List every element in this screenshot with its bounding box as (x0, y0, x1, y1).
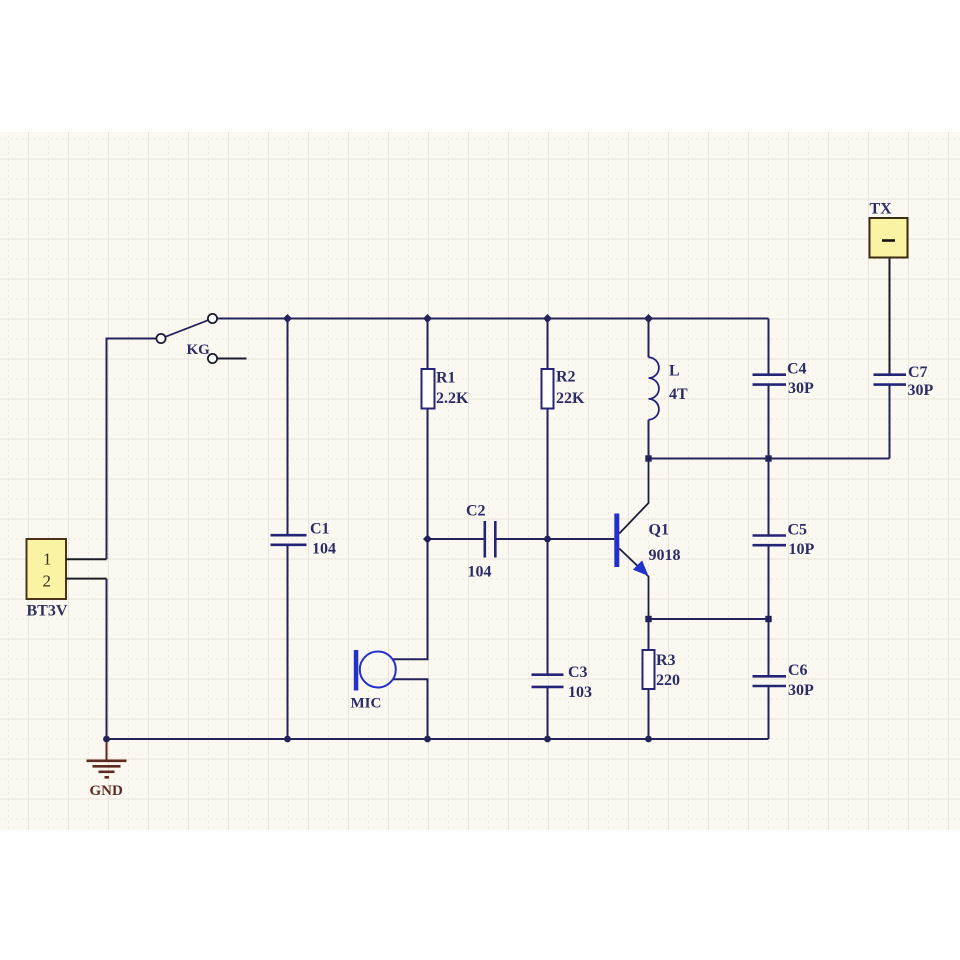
svg-text:1: 1 (43, 550, 52, 569)
wire: base node to C3 (547, 539, 549, 674)
switch KG lower throw stub wire (218, 358, 247, 360)
capacitor C2 plates (485, 521, 496, 558)
capacitor C1 plates (271, 535, 307, 545)
inductor L arcs (649, 357, 659, 419)
junction: ground rail / GND (103, 736, 110, 743)
wire: battery pin2 vertical to ground rail (106, 579, 108, 739)
battery pin 1 (66, 558, 107, 560)
svg-text:30P: 30P (788, 682, 814, 699)
wire: C1 column lower (287, 546, 289, 740)
transistor Q1 base bar (614, 514, 619, 568)
capacitor C5 plates (753, 536, 787, 546)
wire: L top (648, 319, 650, 358)
port TX dash (882, 239, 895, 242)
resistor R2 body (542, 369, 554, 409)
svg-text:C3: C3 (568, 664, 588, 681)
svg-text:Q1: Q1 (649, 522, 669, 539)
junction: base node R1/C2/MIC (423, 535, 432, 544)
switch KG circle top throw (208, 314, 217, 323)
resistor R3 body (643, 650, 655, 689)
ground bar 2 (93, 765, 121, 768)
svg-text:MIC: MIC (351, 696, 382, 712)
junction: emitter rail / R3 (645, 616, 651, 622)
junction: top rail / R2 (543, 314, 552, 323)
microphone MIC bar (354, 650, 359, 691)
transistor Q1 emitter line (619, 549, 648, 620)
wire: base row right (C2 to Q1 base) (497, 538, 615, 540)
svg-text:22K: 22K (556, 390, 585, 407)
capacitor C4 plates (753, 375, 787, 385)
wire: emitter rail (649, 618, 769, 620)
svg-text:104: 104 (468, 564, 492, 581)
svg-text:C6: C6 (788, 662, 808, 679)
wire: base row left (node to C2) (428, 538, 484, 540)
junction: ground rail / R3 (645, 736, 652, 743)
switch KG blade (166, 320, 208, 336)
svg-text:2.2K: 2.2K (436, 390, 469, 407)
svg-text:R2: R2 (556, 369, 576, 386)
wire: R2 top (547, 319, 549, 370)
wire: L bottom (648, 420, 650, 459)
svg-text:C2: C2 (466, 503, 486, 520)
svg-text:C5: C5 (788, 522, 808, 539)
svg-text:10P: 10P (789, 541, 815, 558)
svg-text:TX: TX (870, 201, 893, 218)
svg-text:30P: 30P (908, 382, 934, 399)
svg-text:C4: C4 (787, 361, 807, 378)
wire: R3 bottom (648, 689, 650, 739)
battery pin 2 (66, 578, 107, 580)
svg-text:L: L (669, 363, 680, 380)
wire: MIC pin2 to ground rail (393, 679, 428, 739)
svg-text:103: 103 (568, 684, 592, 701)
junction: mid rail / L collector (645, 455, 651, 461)
port TX box (870, 218, 908, 258)
svg-text:9018: 9018 (649, 547, 681, 564)
wire: R1 top (427, 319, 429, 370)
ground bar 4 (105, 776, 110, 779)
junction: top rail / L (644, 314, 653, 323)
wire: C3 bottom to ground rail (547, 688, 549, 740)
wire: C5 column lower (768, 546, 770, 620)
wire: mid rail (tank circuit) (649, 458, 890, 460)
svg-text:C1: C1 (310, 521, 330, 538)
wire: R3 top (648, 619, 650, 650)
junction: ground rail / C1 (284, 736, 291, 743)
junction: top rail / C1 (283, 314, 292, 323)
junction: base node R2/C3 (544, 536, 551, 543)
transistor Q1 collector line (619, 459, 648, 534)
junction: ground rail / C3 (544, 736, 551, 743)
wire: R2 bottom to base node (547, 409, 549, 540)
wire: C6 column lower (768, 687, 770, 740)
svg-text:220: 220 (656, 672, 680, 689)
wire: C6 column upper (768, 619, 770, 676)
wire: node to MIC pin1 (393, 539, 428, 659)
svg-text:GND: GND (90, 783, 124, 799)
svg-text:2: 2 (43, 572, 52, 591)
junction: ground rail / MIC (424, 736, 431, 743)
battery connector BT3V box (27, 539, 67, 599)
svg-text:30P: 30P (788, 380, 814, 397)
capacitor C6 plates (753, 676, 787, 686)
wire: C5 column upper (768, 459, 770, 536)
wire: battery pin1 vertical to switch (107, 339, 156, 560)
svg-text:C7: C7 (908, 364, 928, 381)
switch KG circle left pivot (156, 334, 165, 343)
svg-text:4T: 4T (669, 386, 688, 403)
junction: mid rail / C4 C5 (765, 455, 771, 461)
svg-text:BT3V: BT3V (27, 603, 68, 620)
switch KG circle bottom throw (208, 354, 217, 363)
ground symbol stub (106, 739, 108, 761)
capacitor C3 plates (532, 675, 564, 687)
svg-text:104: 104 (312, 541, 336, 558)
svg-text:R3: R3 (656, 652, 676, 669)
junction: top rail / R1 (423, 314, 432, 323)
wire: bottom ground rail (107, 738, 769, 740)
resistor R1 body (422, 369, 435, 409)
svg-text:KG: KG (187, 342, 211, 358)
wire: C1 column upper (287, 319, 289, 536)
wire: TX port to C7 (889, 258, 891, 375)
wire: C7 bottom to mid rail (889, 385, 891, 459)
ground bar 1 (87, 759, 127, 762)
wire: C4 column lower (768, 385, 770, 459)
wire: top power rail (218, 318, 769, 320)
wire: R1 bottom to node (427, 409, 429, 540)
microphone MIC circle (360, 652, 396, 688)
capacitor C7 plates (874, 375, 907, 385)
ground bar 3 (99, 770, 115, 773)
transistor Q1 emitter arrow (633, 560, 649, 576)
wire: C4 column upper (768, 319, 770, 375)
junction: emitter rail / C5 C6 (765, 616, 771, 622)
svg-text:R1: R1 (436, 370, 456, 387)
